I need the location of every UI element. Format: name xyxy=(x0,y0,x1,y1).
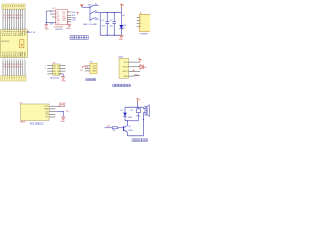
svg-text:GND: GND xyxy=(44,29,49,31)
U2 left wire to ground xyxy=(46,17,56,25)
power flag on pin1 xyxy=(138,58,141,62)
bottom rail xyxy=(100,34,121,36)
svg-text:DS1302: DS1302 xyxy=(55,29,63,31)
buzzer LS1 xyxy=(143,105,149,120)
svg-text:C1: C1 xyxy=(102,20,104,22)
base resistor R2 xyxy=(105,126,124,132)
resistor R1 on pin1 xyxy=(55,103,66,107)
net labels on bottom bus (red) xyxy=(3,64,23,69)
ground symbol U5 xyxy=(61,117,66,123)
pin numbers above MCU xyxy=(2,28,25,30)
svg-text:10u: 10u xyxy=(110,26,113,28)
svg-text:P04P05P06P07: P04P05P06P07 xyxy=(3,66,23,68)
alarm title xyxy=(132,139,148,142)
svg-text:JDQ: JDQ xyxy=(136,116,140,118)
top rail xyxy=(125,106,143,108)
ground symbol power section xyxy=(119,35,124,41)
svg-text:VCC: VCC xyxy=(72,12,77,14)
RTC chip U2 (red outline) xyxy=(52,8,67,31)
svg-text:EA31: EA31 xyxy=(23,51,26,56)
power flag +5V above LED xyxy=(120,4,125,8)
IR sensor module U6 xyxy=(80,62,97,81)
EEPROM U3 xyxy=(45,63,66,83)
svg-text:GND: GND xyxy=(124,76,129,78)
power indicator LED D1 xyxy=(119,7,127,35)
svg-text:D1: D1 xyxy=(123,28,125,30)
left vertical xyxy=(99,13,101,36)
svg-text:GND: GND xyxy=(61,81,66,83)
switch block S1 xyxy=(83,4,100,26)
svg-text:GND: GND xyxy=(61,121,66,123)
collector rail xyxy=(125,120,138,122)
power flag VCC (power section) xyxy=(80,5,90,8)
U3 right pins xyxy=(60,66,66,74)
svg-text:K1: K1 xyxy=(131,110,133,112)
svg-text:P14P15P16P17: P14P15P16P17 xyxy=(3,17,23,19)
svg-text:A0: A0 xyxy=(53,64,55,67)
connector J2 bottom header xyxy=(1,76,26,82)
bus wires from MCU to J2 xyxy=(3,60,25,75)
pin numbers below MCU xyxy=(2,59,25,61)
top rail xyxy=(100,12,121,14)
net labels on top bus (red) xyxy=(3,15,23,19)
svg-text:D2: D2 xyxy=(121,110,123,112)
svg-text:C2: C2 xyxy=(110,20,112,22)
svg-text:A2: A2 xyxy=(53,70,55,73)
svg-text:2: 2 xyxy=(140,20,141,22)
connector J1 top header xyxy=(2,4,25,10)
capacitor C2 xyxy=(110,13,116,36)
transistor Q1 xyxy=(124,126,133,133)
svg-text:DS18B20: DS18B20 xyxy=(30,122,44,126)
svg-text:K2: K2 xyxy=(95,11,97,13)
U3 left pins xyxy=(47,66,53,74)
power port on pin2 xyxy=(140,65,147,69)
filter caps and LED rails xyxy=(100,12,121,36)
junction dots xyxy=(107,12,108,13)
svg-text:18B20: 18B20 xyxy=(20,121,27,123)
svg-text:D1: D1 xyxy=(122,15,124,17)
svg-text:A1: A1 xyxy=(53,67,55,70)
svg-text:RST/VPD: RST/VPD xyxy=(1,41,10,43)
bus wires from J1 to MCU xyxy=(3,9,25,29)
svg-text:XTAL2 18: XTAL2 18 xyxy=(26,31,36,34)
U6 label xyxy=(86,79,96,81)
MCU inner box (crystal section) xyxy=(20,40,24,48)
svg-text:GND: GND xyxy=(119,39,124,41)
svg-text:GND +5V GND: GND +5V GND xyxy=(83,24,98,26)
MCU U1 xyxy=(0,30,27,59)
U4 title xyxy=(113,84,131,87)
switch contact 3 xyxy=(90,18,94,20)
U3 ground xyxy=(61,74,66,83)
svg-text:GND: GND xyxy=(66,28,71,30)
switch contact 2 xyxy=(90,11,94,13)
U5 pin3 wire to junction and ground xyxy=(56,110,69,116)
svg-text:CLK: CLK xyxy=(72,20,77,22)
svg-text:GND: GND xyxy=(134,74,139,76)
power flag right of U2 xyxy=(77,13,79,15)
relay coil K1 xyxy=(131,107,141,121)
svg-text:GND: GND xyxy=(92,71,97,73)
power flag alarm xyxy=(136,99,141,108)
capacitor C1 xyxy=(102,13,109,36)
emitter return wire xyxy=(127,119,143,136)
section title 电源电路 xyxy=(70,36,88,40)
svg-text:4: 4 xyxy=(140,26,141,28)
svg-text:GND: GND xyxy=(44,109,49,111)
svg-text:1: 1 xyxy=(140,17,141,19)
svg-text:4148: 4148 xyxy=(128,117,132,119)
svg-text:3: 3 xyxy=(140,23,141,25)
power connector JP1 (right edge, clipped) xyxy=(137,13,151,36)
svg-text:AOUT: AOUT xyxy=(123,70,129,73)
U2 right pins with net labels xyxy=(66,12,78,30)
svg-text:R2: R2 xyxy=(113,130,115,132)
svg-text:POWER: POWER xyxy=(140,33,148,35)
svg-text:K1: K1 xyxy=(95,4,97,6)
diode D2 branch xyxy=(121,107,132,121)
red no-connect marks on left pins xyxy=(45,65,46,70)
alarm circuit xyxy=(105,99,150,142)
ground symbol for U2 xyxy=(44,25,49,31)
svg-text:9 8 7 6 5 4 3 2 1 0 1: 9 8 7 6 5 4 3 2 1 0 1 xyxy=(2,59,25,61)
gas sensor U4 xyxy=(113,57,147,87)
svg-text:DOUT: DOUT xyxy=(123,67,129,69)
svg-text:9013: 9013 xyxy=(128,130,132,132)
svg-text:P32: P32 xyxy=(85,67,88,69)
svg-text:l l l l l l l l l l: l l l l l l l l l l xyxy=(2,80,25,82)
power flag left of U6 xyxy=(80,66,84,72)
svg-text:AT24C02: AT24C02 xyxy=(50,76,60,79)
svg-text:Q1: Q1 xyxy=(128,126,131,128)
U5 pins xyxy=(49,106,56,117)
svg-text:K3: K3 xyxy=(95,18,97,20)
svg-text:104: 104 xyxy=(102,26,105,28)
U2 left pins with net labels xyxy=(46,11,56,23)
wire stub right of MCU with net label xyxy=(26,31,36,34)
switch contact 1 xyxy=(90,5,94,7)
U4 pins xyxy=(129,62,141,76)
svg-text:P37: P37 xyxy=(107,126,110,128)
ground right of U2 bottom pin xyxy=(66,22,71,30)
LCD/sensor chip U5 xyxy=(20,102,70,125)
